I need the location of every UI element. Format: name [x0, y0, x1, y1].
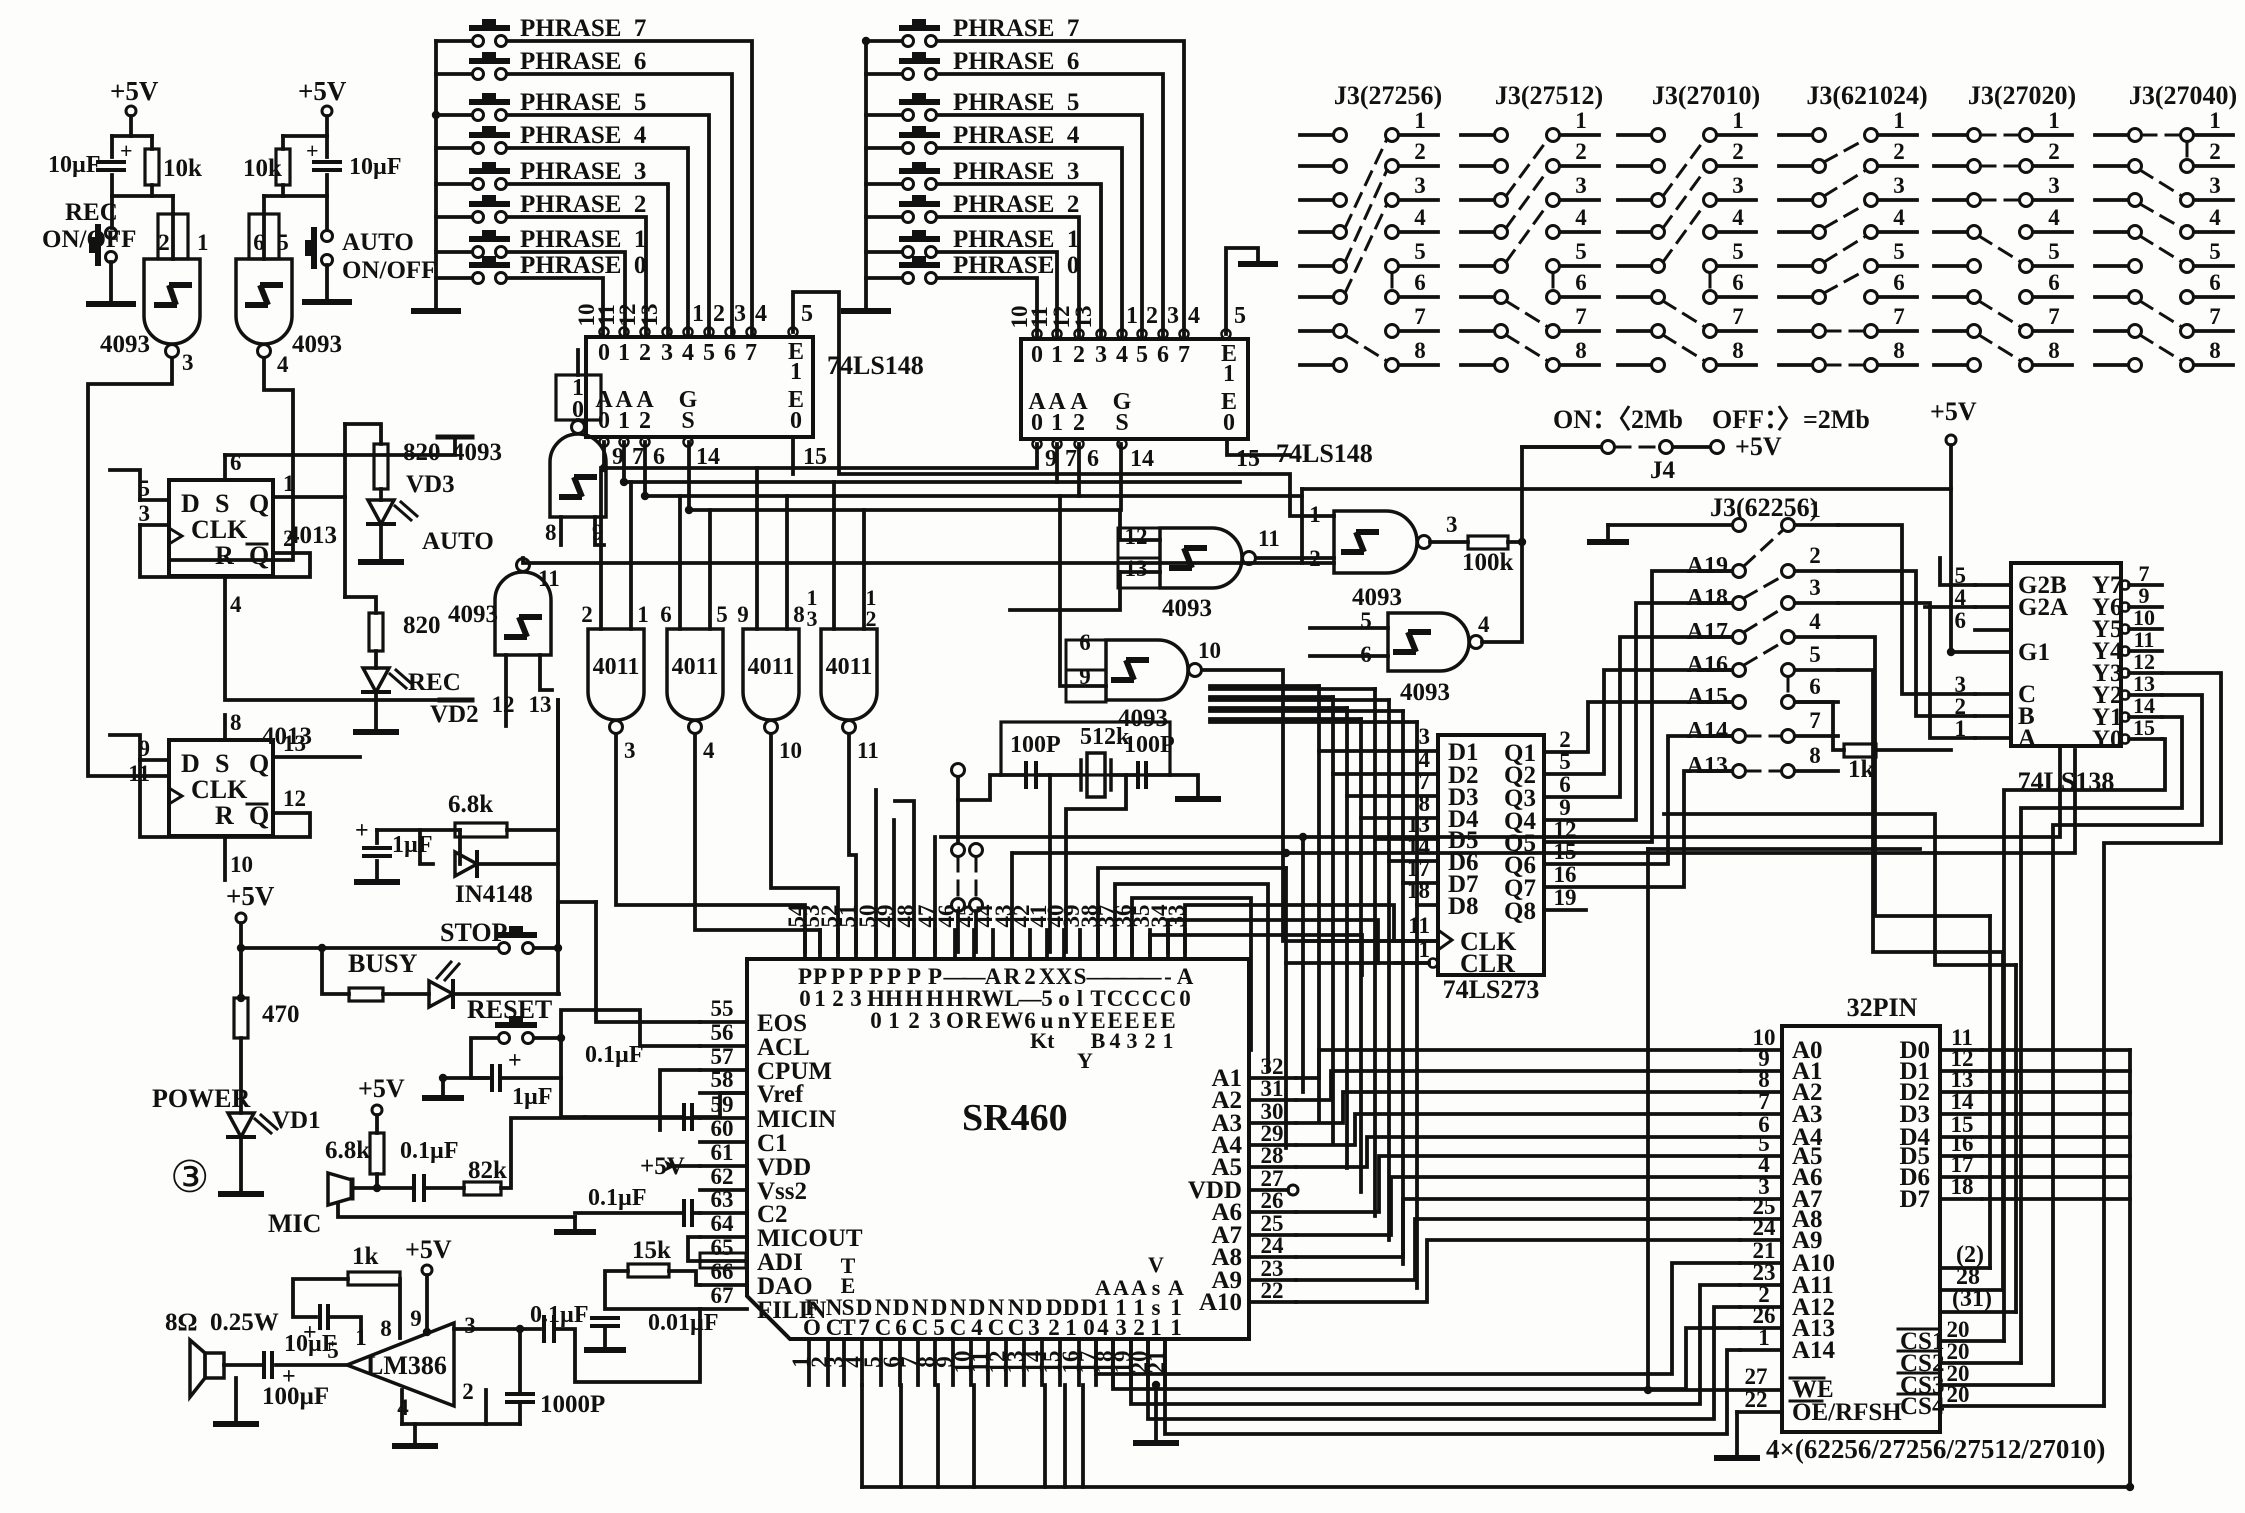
J3(27020) left lead 2 — [1934, 164, 1967, 168]
svg-text:4093: 4093 — [1162, 595, 1212, 622]
J3(27256) right lead 1 — [1399, 133, 1438, 137]
schmitt U7D — [1393, 632, 1431, 652]
wire pin4 gnd stem — [413, 1424, 417, 1444]
svg-text:61: 61 — [711, 1140, 734, 1165]
resistor 10k (REC) — [145, 149, 159, 185]
wire SR bottom drop x1045 — [1043, 1385, 1047, 1487]
svg-text:V: V — [1148, 1252, 1164, 1277]
J3(27512) left lead 8 — [1461, 363, 1494, 367]
J3(27512) left lead 2 — [1461, 164, 1494, 168]
J3-62256 right circle 1 — [1782, 519, 1795, 532]
svg-text:MIC: MIC — [268, 1209, 321, 1238]
svg-text:11: 11 — [857, 738, 879, 763]
wire U6A out — [616, 735, 805, 952]
svg-text:13: 13 — [529, 692, 552, 717]
svg-text:3: 3 — [1167, 303, 1179, 329]
svg-text:PHRASE 0: PHRASE 0 — [953, 252, 1079, 279]
jumper circle b2 — [970, 899, 983, 912]
wire D1 feed top — [1210, 684, 1319, 688]
svg-text:3: 3 — [1115, 1315, 1127, 1340]
pushbutton PHRASE 0 bank2 — [903, 273, 914, 284]
svg-text:62: 62 — [711, 1164, 734, 1189]
wire (31) riser — [2014, 965, 2018, 1312]
pin 67 stub SR460 left — [700, 1307, 747, 1311]
J3(27040) right lead 5 — [2194, 264, 2233, 268]
svg-text:+5V: +5V — [405, 1235, 452, 1264]
svg-text:2: 2 — [1073, 342, 1085, 368]
J3(27040) vert12 — [2186, 142, 2189, 159]
wire diode branch down — [458, 830, 462, 864]
wire tap g8 input — [1060, 496, 1106, 686]
pin box U7A — [1118, 528, 1160, 588]
svg-text:5: 5 — [2048, 239, 2060, 264]
svg-text:10: 10 — [779, 738, 802, 763]
J3(27020) diag 5 — [1979, 301, 2021, 327]
J3(621024) right lead 8 — [1878, 363, 1917, 367]
pin 1 stub mem — [1740, 1348, 1782, 1352]
svg-text:1: 1 — [2209, 108, 2221, 133]
pin 27 stub — [1249, 1188, 1288, 1192]
pin 51 stub SR460 top — [854, 930, 858, 959]
J3-62256 right lead 7 — [1795, 734, 1838, 738]
J3(27040) left lead 1 — [2095, 133, 2128, 137]
pin 7 terminal U2 — [747, 328, 756, 337]
overline CS2 — [1898, 1350, 1938, 1353]
wire U5A out to flag — [576, 418, 580, 422]
svg-text:2: 2 — [2048, 139, 2060, 164]
svg-text:J4: J4 — [1650, 457, 1676, 484]
ground-bar S U4A — [438, 435, 472, 440]
wire pin13 U4B Q — [273, 755, 360, 759]
svg-text:J3(27512): J3(27512) — [1495, 81, 1603, 110]
wire Q5 to A15 — [1544, 571, 1732, 842]
wire tap 4011C in1 — [755, 468, 759, 629]
wire D6 bus — [1982, 1175, 2130, 1179]
pin 21 stub mem — [1740, 1261, 1782, 1265]
pin 10 stub Y5 — [2129, 627, 2162, 631]
wire cap to 82k — [424, 1186, 464, 1190]
svg-text:3: 3 — [2048, 173, 2060, 198]
J3(27010) left lead 1 — [1618, 133, 1651, 137]
wire bank1 bus stub row 7 — [436, 39, 472, 43]
junction dot 20 — [620, 478, 628, 486]
junction dot 12 — [1282, 849, 1290, 857]
J3(27010) left circle 3 — [1652, 194, 1665, 207]
svg-text:1: 1 — [2048, 108, 2060, 133]
J3(621024) left lead 3 — [1779, 198, 1812, 202]
J3(621024) left circle 3 — [1813, 194, 1826, 207]
J3(27512) right circle 1 — [1547, 129, 1560, 142]
junction dot 1 — [318, 944, 326, 952]
J3(27040) left circle 5 — [2129, 260, 2142, 273]
svg-text:LM386: LM386 — [366, 1351, 447, 1380]
svg-text:6: 6 — [1414, 270, 1426, 295]
wire D6 feed top — [1210, 698, 1389, 702]
svg-text:3: 3 — [624, 738, 636, 763]
wire U7B out — [1430, 540, 1468, 544]
pin 2 terminal U2 — [641, 328, 650, 337]
pushbutton PHRASE 7 bank2 — [903, 36, 914, 47]
pin CS2 stub — [1940, 1361, 2021, 1365]
svg-text:VDD: VDD — [757, 1154, 811, 1181]
svg-text:3: 3 — [1028, 1315, 1040, 1340]
J4 circle mid — [1660, 441, 1673, 454]
pin 26 stub mem — [1740, 1326, 1782, 1330]
J3(621024) left lead 4 — [1779, 230, 1812, 234]
pin E1 terminal U2 — [789, 328, 798, 337]
svg-text:1: 1 — [197, 230, 209, 255]
svg-text:6: 6 — [1087, 446, 1099, 472]
overline CS4 — [1898, 1393, 1938, 1396]
wire PHRASE 7 bank2 to encoder — [937, 41, 1184, 338]
J3(27512) left lead 1 — [1461, 133, 1494, 137]
svg-text:470: 470 — [262, 1001, 300, 1028]
pin 3 terminal U3 — [1097, 330, 1106, 339]
wire xtal node1 down — [1048, 775, 1052, 952]
svg-text:1: 1 — [790, 359, 802, 385]
wire D5 tail — [1373, 839, 1377, 1216]
pin 31 stub right — [1249, 1098, 1296, 1102]
wire chain VD2 top — [345, 597, 376, 613]
crystal 512k — [1087, 753, 1105, 797]
wire A1 bus stub enc2 — [1055, 444, 1059, 482]
svg-text:D7: D7 — [1899, 1186, 1930, 1213]
wire power down — [239, 948, 243, 998]
J3(27256) right circle 1 — [1386, 129, 1399, 142]
J3-62256 right lead 1 — [1795, 523, 1838, 527]
svg-text:74LS148: 74LS148 — [827, 351, 924, 380]
svg-text:1k: 1k — [352, 1243, 379, 1270]
svg-text:O: O — [803, 1315, 821, 1340]
bus bottom long — [862, 1485, 2130, 1489]
pin 32 stub right — [1249, 1076, 1296, 1080]
pushbutton PHRASE 1 bank1 — [473, 247, 484, 258]
wire busy res to led — [383, 992, 429, 996]
J3(27512) left lead 5 — [1461, 264, 1494, 268]
J3(27040) right lead 1 — [2194, 133, 2233, 137]
wire pin2 U4A — [140, 525, 310, 577]
terminal pin27 VDD — [1288, 1185, 1298, 1195]
wire tap 4011B in1 — [678, 496, 682, 629]
clock wedge U4A — [169, 528, 182, 544]
J3(27040) right lead 4 — [2194, 230, 2233, 234]
svg-text:Y0: Y0 — [2092, 726, 2123, 753]
svg-text:7: 7 — [1732, 304, 1744, 329]
bottom pin 7 U2 — [620, 438, 629, 447]
J3(27010) diag 2 — [1663, 139, 1705, 196]
pin 50 stub SR460 top — [874, 930, 878, 959]
wire Y2 to CS3 — [2053, 695, 2202, 1385]
wire CLR tail down — [1284, 963, 1288, 1148]
svg-text:6: 6 — [253, 230, 265, 255]
pin 59 stub SR460 left — [700, 1116, 747, 1120]
svg-text:4: 4 — [1188, 303, 1200, 329]
wire res to LED VD2 — [374, 651, 378, 668]
overline CS3 — [1898, 1372, 1938, 1375]
pin 20 stub SR460 bottom — [1146, 1339, 1150, 1385]
wire PHRASE 3 bank1 to encoder — [507, 184, 668, 335]
svg-text:+: + — [508, 1048, 522, 1074]
junction dot 4 — [557, 1034, 565, 1042]
IC 74LS148 U2 body — [586, 337, 813, 437]
svg-text:+: + — [355, 818, 369, 844]
ground-bar R U4B — [440, 698, 472, 703]
svg-text:A: A — [1113, 1275, 1129, 1300]
J3-62256 right circle 8 — [1782, 765, 1795, 778]
wire pin49 up — [892, 820, 896, 952]
pin 25 stub mem — [1740, 1217, 1782, 1221]
svg-text:10µF: 10µF — [284, 1331, 337, 1357]
svg-text:1: 1 — [1150, 1315, 1162, 1340]
J3(27256) left circle 2 — [1334, 160, 1347, 173]
pin 11 stub Y4 — [2129, 649, 2162, 653]
svg-text:10: 10 — [230, 852, 253, 877]
svg-text:1: 1 — [1575, 108, 1587, 133]
pin 7 terminal U3 — [1180, 330, 1189, 339]
J3(27256) right circle 3 — [1386, 194, 1399, 207]
J3(27010) right lead 4 — [1717, 230, 1756, 234]
J3(621024) right lead 5 — [1878, 264, 1917, 268]
J3-62256 right circle 6 — [1782, 696, 1795, 709]
svg-text:5: 5 — [933, 1315, 945, 1340]
svg-text:28: 28 — [1261, 1143, 1284, 1168]
wire pin6 U4A — [223, 455, 227, 480]
pin 1 terminal U3 — [1053, 330, 1062, 339]
wire PHRASE 4 bank2 to encoder — [937, 148, 1122, 338]
wire PHRASE 0 bank1 to encoder — [507, 278, 603, 335]
wire out cap right — [554, 1309, 700, 1382]
wire 1k right to pin8 — [398, 1279, 402, 1338]
svg-text:R: R — [966, 1008, 983, 1033]
pin 15 stub Y0 — [2129, 737, 2162, 741]
resistor 1k LM386 — [348, 1272, 400, 1285]
J3(27020) diag 6 — [1979, 335, 2021, 361]
pin 60 stub SR460 left — [700, 1140, 747, 1144]
svg-text:31: 31 — [1261, 1076, 1284, 1101]
wire y814 link — [1664, 814, 2016, 965]
wire lm gnd bus — [402, 1422, 520, 1426]
J3(27040) left circle 1 — [2129, 129, 2142, 142]
wire pin43 up — [1010, 853, 1014, 952]
svg-text:0.1µF: 0.1µF — [400, 1138, 459, 1164]
wire U5B in2 — [540, 655, 552, 690]
wire AUTO 10k to junction — [281, 185, 285, 196]
svg-text:J3(27256): J3(27256) — [1334, 81, 1442, 110]
wire D4 feed top — [1210, 717, 1361, 721]
svg-text:2: 2 — [1146, 303, 1158, 329]
svg-text:4: 4 — [1116, 342, 1128, 368]
svg-text:12: 12 — [283, 786, 306, 811]
svg-text:66: 66 — [711, 1259, 734, 1284]
pin 57 stub SR460 left — [700, 1068, 747, 1072]
svg-text:1: 1 — [1309, 502, 1321, 527]
nand gate U1B 4093 — [236, 259, 292, 344]
wire 470 to LED — [239, 1038, 243, 1113]
nand gate U7A 4093 — [1160, 528, 1242, 588]
J3-62256 left lead 2 — [1700, 569, 1732, 573]
svg-text:3: 3 — [1095, 342, 1107, 368]
svg-text:6.8k: 6.8k — [448, 791, 493, 818]
J3(27256) left lead 3 — [1300, 198, 1333, 202]
svg-text:3: 3 — [182, 350, 194, 375]
J3(27010) left lead 2 — [1618, 164, 1651, 168]
wire row1 net — [1838, 525, 1975, 694]
svg-text:A10: A10 — [1199, 1289, 1242, 1316]
svg-text:9: 9 — [737, 602, 749, 627]
overline Qbar U4B — [247, 803, 267, 806]
svg-text:n: n — [1058, 1008, 1071, 1033]
wire pin38 bracket — [1098, 868, 1286, 952]
J3(27512) right lead 5 — [1560, 264, 1599, 268]
J3(27256) left lead 7 — [1300, 329, 1333, 333]
ground 0.01uF — [587, 1347, 623, 1353]
svg-text:13: 13 — [637, 304, 662, 327]
svg-text:74LS273: 74LS273 — [1443, 975, 1540, 1004]
pushbutton PHRASE 7 bank1 — [473, 36, 484, 47]
capacitor 1uF reset — [492, 1066, 500, 1090]
svg-text:PHRASE 3: PHRASE 3 — [953, 158, 1079, 185]
pin 39 stub SR460 top — [1078, 930, 1082, 959]
svg-text:10: 10 — [1198, 638, 1221, 663]
pushbutton PHRASE 6 bank1 — [473, 69, 484, 80]
J3(27020) right circle 5 — [2020, 260, 2033, 273]
svg-text:+5V: +5V — [358, 1074, 405, 1103]
J3(27010) left lead 7 — [1618, 329, 1651, 333]
pin 24 stub right — [1249, 1255, 1296, 1259]
terminal +5V LM386 — [422, 1265, 432, 1275]
svg-text:65: 65 — [711, 1235, 734, 1260]
wire osc middle2 — [1111, 773, 1137, 777]
svg-text:PHRASE 1: PHRASE 1 — [953, 226, 1079, 253]
wire A bus 7 — [1296, 1199, 1740, 1257]
wire busy to vert — [453, 992, 559, 996]
J3(27020) h3 — [1981, 199, 2019, 202]
J3(27512) diag 3 — [1506, 170, 1548, 228]
wire 1k left loop — [293, 1279, 348, 1317]
pushbutton PHRASE 5 bank2 — [903, 110, 914, 121]
microphone MIC — [328, 1173, 352, 1205]
J3(27256) right lead 5 — [1399, 264, 1438, 268]
svg-text:7: 7 — [1809, 708, 1821, 733]
wire A bus 0 — [1296, 1050, 1740, 1078]
wire pin57 net — [660, 1070, 700, 1130]
J3(27512) left circle 4 — [1495, 226, 1508, 239]
wire bank1 bus stub row 4 — [436, 146, 472, 150]
svg-text:4093: 4093 — [292, 331, 342, 358]
svg-text:32PIN: 32PIN — [1847, 993, 1918, 1022]
svg-text:7: 7 — [1758, 1089, 1770, 1114]
J3(27512) right circle 5 — [1547, 260, 1560, 273]
J3(27020) right lead 3 — [2033, 198, 2072, 202]
J3(27010) right circle 5 — [1704, 260, 1717, 273]
J3(27512) right circle 6 — [1547, 291, 1560, 304]
junction dot 14 — [432, 111, 440, 119]
svg-text:2: 2 — [639, 340, 651, 366]
svg-text:EOS: EOS — [757, 1010, 807, 1037]
wire bank1 bus stub row 3 — [436, 182, 472, 186]
resistor BUSY — [349, 988, 383, 1001]
J3(27040) left lead 7 — [2095, 329, 2128, 333]
svg-text:64: 64 — [711, 1211, 735, 1236]
ground speaker — [216, 1421, 256, 1427]
svg-text:1: 1 — [1732, 108, 1744, 133]
svg-text:PHRASE 2: PHRASE 2 — [953, 191, 1079, 218]
svg-text:8Ω 0.25W: 8Ω 0.25W — [165, 1309, 279, 1336]
svg-text:820: 820 — [403, 439, 441, 466]
svg-text:11: 11 — [1258, 526, 1280, 551]
pin 47 stub SR460 top — [933, 930, 937, 959]
svg-text:55: 55 — [711, 996, 734, 1021]
svg-text:1: 1 — [692, 301, 704, 327]
J3(621024) right lead 2 — [1878, 164, 1917, 168]
pushbutton PHRASE 3 bank1 — [473, 179, 484, 190]
J3(621024) left lead 5 — [1779, 264, 1812, 268]
pin 0 terminal U3 — [1033, 330, 1042, 339]
resistor 6.8k mic — [370, 1133, 384, 1174]
J3(621024) right circle 2 — [1865, 160, 1878, 173]
svg-text:+5V: +5V — [226, 881, 275, 911]
svg-text:59: 59 — [711, 1092, 734, 1117]
J3(621024) left lead 8 — [1779, 363, 1812, 367]
wire G2A net — [1925, 605, 1975, 609]
svg-text:ACL: ACL — [757, 1034, 810, 1061]
svg-text:CLK: CLK — [191, 515, 248, 544]
pin 28 stub right — [1249, 1165, 1296, 1169]
svg-text:7: 7 — [1178, 342, 1190, 368]
wire A10 feed — [1096, 1263, 1740, 1374]
J3-62256 left circle 2 — [1733, 565, 1746, 578]
J3(27020) left lead 7 — [1934, 329, 1967, 333]
capacitor 10uF (AUTO) — [314, 162, 340, 170]
overline CS1 — [1898, 1328, 1938, 1331]
J3-62256 dashed diag 3 — [1744, 608, 1783, 632]
J3(27256) left circle 5 — [1334, 260, 1347, 273]
junction dot 15 — [1644, 1386, 1652, 1394]
pin 33 stub SR460 top — [1183, 930, 1187, 959]
J4 dashed — [1616, 446, 1658, 449]
wire D3 bus — [1982, 1112, 2130, 1116]
wire pin9 U4B — [140, 758, 169, 762]
wire pin36 bracket — [1132, 898, 1251, 1050]
wire cap bottom — [375, 861, 379, 880]
pin 15 stub SR460 bottom — [1058, 1339, 1062, 1385]
J3(621024) right circle 8 — [1865, 359, 1878, 372]
J3(27010) left circle 8 — [1652, 359, 1665, 372]
svg-text:3: 3 — [1446, 512, 1458, 537]
bus wire y489 — [1302, 487, 1951, 491]
J3(27040) right circle 5 — [2181, 260, 2194, 273]
J3-62256 right lead 6 — [1795, 700, 1838, 704]
wire pin35 bracket — [1150, 935, 1362, 975]
wire D5 feed top — [1210, 687, 1375, 691]
wire U6C out — [771, 735, 838, 952]
wire mic out — [352, 1186, 414, 1190]
wire chain VD3 top — [345, 424, 381, 444]
wire bank1 bus stub row 6 — [436, 72, 472, 76]
svg-text:0: 0 — [1083, 1315, 1095, 1340]
wire AUTO junction row — [264, 194, 327, 198]
wire CLK tail down — [1301, 941, 1305, 1092]
pin 4 stub SR460 bottom — [860, 1339, 864, 1385]
capacitor 0.1uF acl — [684, 1105, 692, 1129]
bus wire y837 — [941, 746, 2060, 837]
pin 19 stub SR460 bottom — [1129, 1339, 1133, 1385]
svg-text:2: 2 — [1073, 410, 1085, 436]
pin 49 stub SR460 top — [892, 930, 896, 959]
pin 18 stub mem d — [1940, 1197, 1982, 1201]
J3(621024) left circle 4 — [1813, 226, 1826, 239]
pin 11 stub 273 — [1395, 939, 1438, 943]
